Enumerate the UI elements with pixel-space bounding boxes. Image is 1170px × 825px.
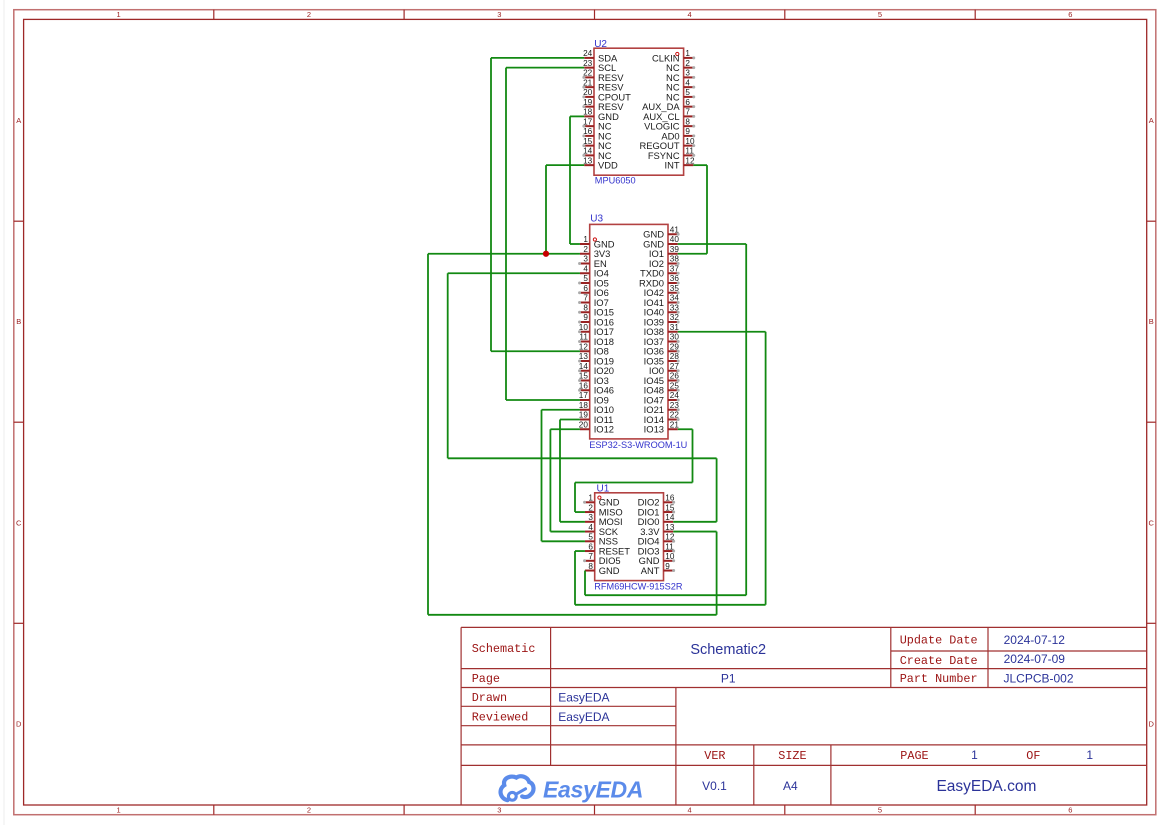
U3 pin 10 IO17 — [578, 323, 614, 337]
U2 pin 22 RESV — [582, 69, 624, 83]
wire VDD U2.13 to 3V3 junction — [546, 165, 584, 254]
U3 pin 18 IO10 — [579, 401, 614, 415]
svg-text:EasyEDA: EasyEDA — [558, 691, 609, 705]
svg-text:20: 20 — [579, 420, 589, 429]
svg-text:40: 40 — [670, 235, 680, 244]
svg-text:23: 23 — [670, 401, 680, 410]
wire U3.IO38 to U1.RESET — [575, 332, 766, 605]
svg-text:8: 8 — [685, 117, 690, 126]
svg-text:17: 17 — [583, 117, 593, 126]
svg-text:9: 9 — [685, 127, 690, 136]
svg-text:10: 10 — [579, 323, 589, 332]
svg-text:ANT: ANT — [641, 565, 660, 576]
U3 pin 21 IO13 — [644, 420, 680, 434]
svg-text:GND: GND — [599, 565, 620, 576]
svg-text:B: B — [16, 317, 21, 326]
svg-text:10: 10 — [685, 137, 695, 146]
U1 pin 4 SCK — [585, 523, 619, 537]
U3 pin 6 IO6 — [578, 284, 609, 298]
svg-text:7: 7 — [588, 552, 593, 561]
svg-text:4: 4 — [685, 78, 690, 87]
U1 pin 11 DIO3 — [638, 542, 676, 556]
U3 pin 37 TXD0 — [640, 264, 680, 278]
svg-text:2: 2 — [685, 59, 690, 68]
U2 pin 20 CPOUT — [582, 88, 631, 102]
svg-text:25: 25 — [670, 381, 680, 390]
svg-text:Update Date: Update Date — [900, 633, 978, 647]
wire U3.IO11 to U1.MOSI — [560, 420, 585, 522]
EasyEDA logo — [501, 776, 644, 802]
U2 pin 5 NC — [666, 88, 695, 102]
svg-text:18: 18 — [579, 401, 589, 410]
U3 pin 5 IO5 — [578, 274, 609, 288]
U1 pin 9 ANT — [641, 562, 675, 576]
U2 pin 23 SCL — [583, 59, 616, 73]
U2 pin 18 GND — [583, 108, 619, 122]
svg-text:1: 1 — [588, 494, 593, 503]
U3 pin 19 IO11 — [579, 411, 614, 425]
wire U3.IO4 to U1.DIO0 — [448, 273, 717, 522]
svg-text:PAGE: PAGE — [900, 749, 928, 763]
svg-text:28: 28 — [670, 352, 680, 361]
svg-text:2: 2 — [588, 503, 593, 512]
wire SCL U2.23 to U3.IO9 — [506, 68, 584, 400]
U3 pin 4 IO4 — [580, 264, 609, 278]
U2 pin 24 SDA — [583, 49, 618, 63]
svg-text:22: 22 — [670, 411, 680, 420]
svg-text:37: 37 — [670, 264, 680, 273]
part name ESP32-S3-WROOM-1U — [589, 440, 687, 450]
U2 pin 7 AUX_CL — [643, 108, 695, 122]
svg-text:20: 20 — [583, 88, 593, 97]
svg-text:2: 2 — [307, 806, 311, 815]
svg-text:U2: U2 — [594, 39, 607, 50]
U3 pin 9 IO16 — [578, 313, 614, 327]
svg-text:Reviewed: Reviewed — [472, 710, 529, 724]
svg-text:30: 30 — [670, 333, 680, 342]
svg-text:7: 7 — [685, 108, 690, 117]
U1 pin 3 MOSI — [585, 513, 623, 527]
svg-text:26: 26 — [670, 372, 680, 381]
svg-text:D: D — [1148, 719, 1154, 728]
svg-text:9: 9 — [583, 313, 588, 322]
U2 pin 9 AD0 — [661, 127, 695, 141]
svg-text:38: 38 — [670, 255, 680, 264]
svg-text:EasyEDA: EasyEDA — [543, 777, 643, 803]
U3 pin 13 IO19 — [578, 352, 614, 366]
svg-text:14: 14 — [583, 147, 593, 156]
svg-text:11: 11 — [579, 333, 588, 342]
svg-text:24: 24 — [670, 391, 680, 400]
svg-text:1: 1 — [117, 806, 121, 815]
svg-text:C: C — [1148, 518, 1154, 527]
svg-text:32: 32 — [670, 313, 680, 322]
svg-text:VER: VER — [704, 749, 725, 763]
U3 pin 24 IO47 — [644, 391, 680, 405]
svg-text:5: 5 — [878, 806, 882, 815]
svg-text:Page: Page — [472, 672, 500, 686]
svg-text:1: 1 — [685, 49, 690, 58]
U1 pin 15 DIO1 — [638, 503, 676, 517]
svg-text:34: 34 — [670, 294, 680, 303]
svg-text:6: 6 — [588, 542, 593, 551]
ESP32-S3-WROOM-1U U3 body — [590, 224, 668, 439]
wire SDA U2.24 to U3.IO8 — [491, 58, 584, 351]
wire U3.IO13 to U1.MISO — [575, 429, 693, 512]
U3 pin 12 IO8 — [579, 342, 609, 356]
svg-text:OF: OF — [1026, 749, 1040, 763]
svg-text:14: 14 — [665, 513, 675, 522]
U1 pin 12 DIO4 — [638, 533, 676, 547]
U2 pin 4 NC — [666, 78, 695, 92]
U1 pin 7 DIO5 — [583, 552, 621, 566]
svg-text:21: 21 — [670, 420, 680, 429]
svg-text:15: 15 — [579, 372, 589, 381]
U2 pin 17 NC — [582, 117, 611, 131]
svg-text:VDD: VDD — [598, 160, 618, 171]
svg-text:B: B — [1149, 317, 1154, 326]
svg-text:19: 19 — [583, 98, 593, 107]
svg-text:U3: U3 — [590, 214, 603, 225]
svg-text:ESP32-S3-WROOM-1U: ESP32-S3-WROOM-1U — [589, 440, 687, 450]
svg-text:Schematic: Schematic — [472, 642, 536, 656]
svg-text:1: 1 — [583, 235, 588, 244]
svg-text:Create Date: Create Date — [900, 654, 978, 668]
U3 pin 28 IO35 — [644, 352, 680, 366]
refdes U2 — [594, 39, 607, 50]
svg-text:3: 3 — [588, 513, 593, 522]
U1 pin 1 GND — [583, 494, 620, 508]
part name RFM69HCW-915S2R — [594, 581, 683, 591]
svg-text:INT: INT — [664, 160, 679, 171]
svg-text:4: 4 — [688, 10, 692, 19]
svg-text:11: 11 — [665, 542, 674, 551]
svg-text:13: 13 — [665, 523, 675, 532]
svg-text:8: 8 — [583, 303, 588, 312]
wire U3.IO10 to U1.NSS — [542, 410, 585, 542]
U1 pin 16 DIO2 — [638, 494, 676, 508]
U1 pin 14 DIO0 — [638, 513, 675, 527]
U2 pin 1 CLKIN — [652, 49, 695, 63]
svg-text:36: 36 — [670, 274, 680, 283]
U1 pin 8 GND — [585, 562, 620, 576]
svg-text:17: 17 — [579, 391, 589, 400]
U3 pin 3 EN — [578, 255, 607, 269]
svg-text:D: D — [16, 719, 22, 728]
svg-text:4: 4 — [583, 264, 588, 273]
U2 pin 11 FSYNC — [648, 147, 695, 161]
refdes U3 — [590, 214, 603, 225]
svg-text:14: 14 — [579, 362, 589, 371]
U2 pin 8 VLOGIC — [644, 117, 695, 131]
U2 pin 13 VDD — [583, 156, 618, 170]
svg-text:13: 13 — [579, 352, 589, 361]
svg-text:12: 12 — [665, 533, 675, 542]
U2 pin 12 INT — [664, 156, 694, 170]
svg-text:Schematic2: Schematic2 — [690, 642, 766, 658]
title block grid — [461, 627, 1147, 805]
svg-text:5: 5 — [878, 10, 882, 19]
U1 pin 13 3.3V — [640, 523, 675, 537]
svg-text:2: 2 — [583, 245, 588, 254]
U2 pin 21 RESV — [582, 78, 624, 92]
svg-text:18: 18 — [583, 108, 593, 117]
svg-text:29: 29 — [670, 342, 680, 351]
title block values — [558, 633, 1093, 795]
svg-text:12: 12 — [685, 156, 695, 165]
svg-text:4: 4 — [588, 523, 593, 532]
svg-text:Part Number: Part Number — [900, 672, 978, 686]
svg-text:A: A — [16, 116, 21, 125]
RFM69HCW-915S2R U1 body — [595, 493, 664, 581]
svg-text:5: 5 — [583, 274, 588, 283]
U3 pin 1 GND — [580, 235, 615, 249]
svg-text:IO13: IO13 — [644, 424, 664, 435]
U3 pin 14 IO20 — [578, 362, 614, 376]
wire U3.IO12 to U1.SCK — [550, 429, 585, 531]
U2 pin 2 NC — [666, 59, 695, 73]
svg-text:15: 15 — [583, 137, 593, 146]
U2 pin 19 RESV — [582, 98, 624, 112]
svg-text:16: 16 — [583, 127, 593, 136]
svg-text:EasyEDA.com: EasyEDA.com — [936, 778, 1036, 795]
svg-text:JLCPCB-002: JLCPCB-002 — [1003, 672, 1073, 686]
svg-text:2: 2 — [307, 10, 311, 19]
svg-text:15: 15 — [665, 503, 675, 512]
U3 pin 34 IO41 — [644, 294, 680, 308]
svg-text:6: 6 — [685, 98, 690, 107]
wire U3.40 GND to U1.8 GND — [585, 244, 746, 595]
U2 pin 10 REGOUT — [639, 137, 695, 151]
U3 pin 8 IO15 — [578, 303, 614, 317]
svg-text:7: 7 — [583, 294, 588, 303]
svg-text:6: 6 — [1068, 10, 1072, 19]
U3 pin 31 IO38 — [644, 323, 680, 337]
svg-text:16: 16 — [579, 381, 589, 390]
svg-text:6: 6 — [1068, 806, 1072, 815]
svg-text:41: 41 — [670, 225, 680, 234]
svg-text:8: 8 — [588, 562, 593, 571]
svg-text:3: 3 — [497, 806, 501, 815]
U3 pin 36 RXD0 — [639, 274, 680, 288]
U2 pin 16 NC — [582, 127, 611, 141]
svg-text:2024-07-12: 2024-07-12 — [1004, 633, 1066, 647]
U3 pin 27 IO0 — [649, 362, 680, 376]
U3 pin 22 IO14 — [644, 411, 680, 425]
svg-text:SIZE: SIZE — [778, 749, 806, 763]
svg-text:11: 11 — [685, 147, 694, 156]
svg-text:MPU6050: MPU6050 — [595, 175, 636, 185]
svg-text:10: 10 — [665, 552, 675, 561]
svg-text:U1: U1 — [597, 483, 610, 494]
U1 pin 6 RESET — [585, 542, 630, 556]
svg-text:5: 5 — [685, 88, 690, 97]
MPU6050 U2 body — [594, 48, 684, 175]
svg-text:31: 31 — [670, 323, 680, 332]
svg-text:33: 33 — [670, 303, 680, 312]
U3 pin 33 IO40 — [644, 303, 680, 317]
U3 pin 32 IO39 — [644, 313, 680, 327]
svg-text:9: 9 — [665, 562, 670, 571]
svg-text:A: A — [1149, 116, 1154, 125]
svg-text:22: 22 — [583, 69, 593, 78]
part name MPU6050 — [595, 175, 636, 185]
U3 pin 30 IO37 — [644, 333, 680, 347]
svg-text:16: 16 — [665, 494, 675, 503]
svg-text:4: 4 — [688, 806, 692, 815]
U3 pin 26 IO45 — [644, 372, 680, 386]
U3 pin 35 IO42 — [644, 284, 680, 298]
refdes U1 — [597, 483, 610, 494]
svg-text:Drawn: Drawn — [472, 691, 507, 705]
U2 pin 3 NC — [666, 69, 695, 83]
U3 pin 38 IO2 — [649, 255, 680, 269]
U3 pin 39 IO1 — [649, 245, 679, 259]
svg-text:3: 3 — [583, 255, 588, 264]
svg-text:39: 39 — [670, 245, 680, 254]
U3 pin 15 IO3 — [578, 372, 609, 386]
svg-text:RFM69HCW-915S2R: RFM69HCW-915S2R — [594, 581, 683, 591]
svg-text:IO12: IO12 — [594, 424, 614, 435]
U3 pin 16 IO46 — [578, 381, 614, 395]
U3 pin 11 IO18 — [578, 333, 614, 347]
U3 pin 41 GND — [643, 225, 679, 239]
U2 pin 6 AUX_DA — [642, 98, 695, 112]
U3 pin 2 3V3 — [580, 245, 610, 259]
svg-text:EasyEDA: EasyEDA — [558, 710, 609, 724]
U3 pin 25 IO48 — [644, 381, 680, 395]
U3 pin 7 IO7 — [578, 294, 609, 308]
svg-text:24: 24 — [583, 49, 593, 58]
svg-text:V0.1: V0.1 — [702, 779, 727, 793]
svg-text:6: 6 — [583, 284, 588, 293]
wire GND U2.18 to U3.1 — [570, 116, 584, 244]
svg-text:1: 1 — [117, 10, 121, 19]
svg-text:1: 1 — [971, 748, 978, 762]
wire 3V3 U3.2 run — [428, 254, 717, 615]
svg-text:12: 12 — [579, 342, 589, 351]
svg-text:21: 21 — [583, 78, 593, 87]
U1 pin 2 MISO — [585, 503, 623, 517]
U1 pin 5 NSS — [585, 533, 618, 547]
svg-text:A4: A4 — [783, 779, 798, 793]
U3 pin 17 IO9 — [579, 391, 609, 405]
title block labels — [472, 633, 1041, 763]
svg-text:3: 3 — [685, 69, 690, 78]
svg-text:13: 13 — [583, 156, 593, 165]
U3 pin 29 IO36 — [644, 342, 680, 356]
U3 pin 20 IO12 — [579, 420, 614, 434]
sheet edge — [3, 0, 5, 825]
svg-text:1: 1 — [1086, 748, 1093, 762]
U2 pin 15 NC — [582, 137, 611, 151]
U3 pin 23 IO21 — [644, 401, 680, 415]
junction 3V3 node — [543, 251, 549, 257]
svg-text:19: 19 — [579, 411, 589, 420]
svg-text:2024-07-09: 2024-07-09 — [1004, 652, 1066, 666]
svg-text:35: 35 — [670, 284, 680, 293]
U2 pin 14 NC — [582, 147, 611, 161]
wire U3.IO1 to U2.INT — [678, 165, 707, 254]
svg-text:5: 5 — [588, 533, 593, 542]
svg-text:C: C — [16, 518, 22, 527]
U1 pin 10 GND — [639, 552, 675, 566]
svg-text:P1: P1 — [721, 671, 736, 685]
U3 pin 40 GND — [643, 235, 679, 249]
svg-text:3: 3 — [497, 10, 501, 19]
svg-text:27: 27 — [670, 362, 680, 371]
svg-text:23: 23 — [583, 59, 593, 68]
